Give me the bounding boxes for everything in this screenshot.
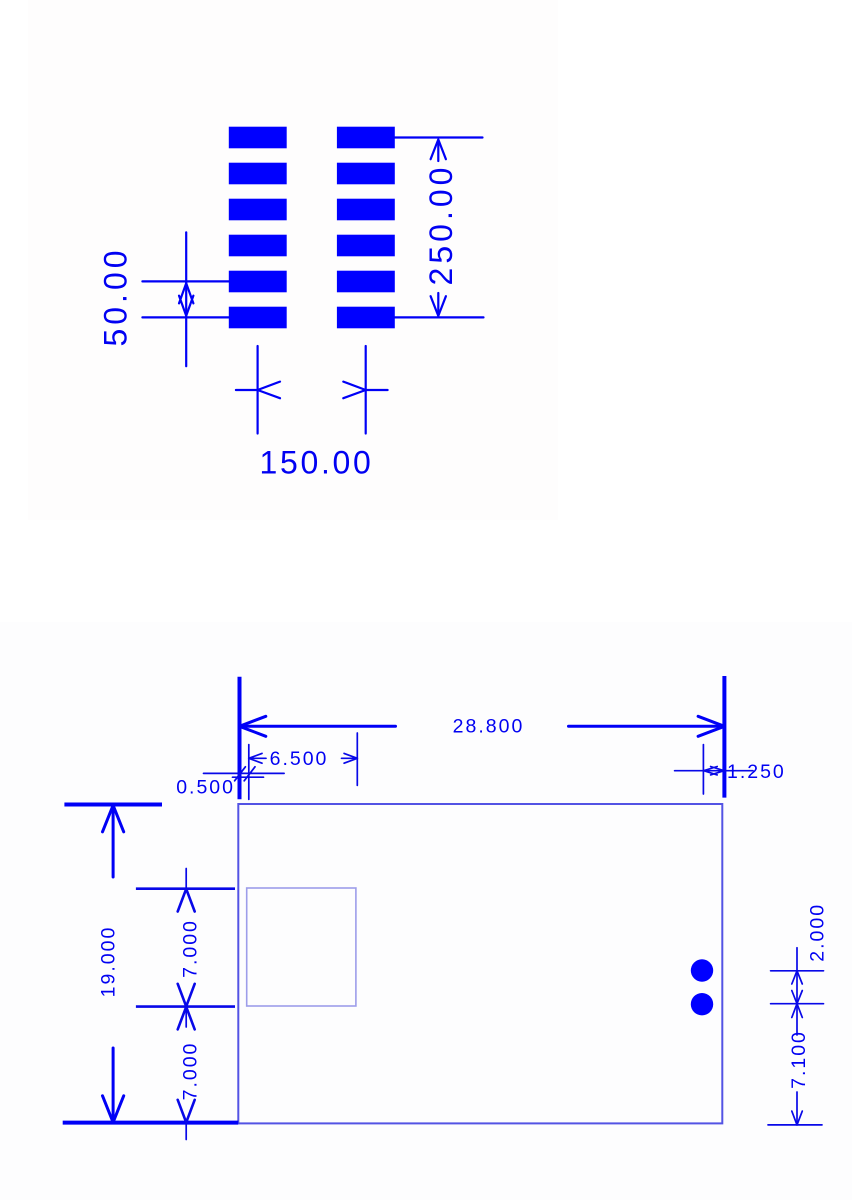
extension line top right (row1 center) xyxy=(395,136,483,138)
dim 0.500 oblique tick left xyxy=(235,767,246,781)
dim 28.800 line right segment + arrow xyxy=(569,725,725,728)
pad R3 xyxy=(337,199,395,221)
thick extension line bottom-left horizontal xyxy=(63,1121,239,1125)
right extension line 1 (circle1 center) xyxy=(771,970,824,972)
dim 7.000 lower arrows + stem below bottom xyxy=(178,1007,195,1030)
dim 250.00 stem bottom + arrow down xyxy=(437,293,439,316)
dim 50.00 extension line row6 xyxy=(142,316,228,318)
svg-text:7.000: 7.000 xyxy=(180,919,202,978)
dim 28.800 line left segment + arrow xyxy=(240,725,396,728)
pad R5 xyxy=(337,271,395,293)
dim 50.00 diamond limit arrows xyxy=(179,283,193,316)
svg-text:0.500: 0.500 xyxy=(176,777,235,799)
dim 1.250 diamond limit arrows xyxy=(704,767,724,775)
pad L4 xyxy=(229,235,287,257)
inner rectangle window xyxy=(247,888,356,1006)
svg-text:1.250: 1.250 xyxy=(727,761,786,783)
centerline symbol right column xyxy=(365,346,367,434)
dim 6.500 right segment + arrow xyxy=(342,757,358,759)
dim 19.000 line bottom segment + arrow down xyxy=(112,1048,115,1122)
dim 0.500 dimension lines xyxy=(204,772,285,774)
dim 7.100 bottom stem + arrow down xyxy=(796,1092,798,1125)
svg-text:6.500: 6.500 xyxy=(270,748,329,770)
pad L2 xyxy=(229,163,287,185)
dim 1.250 left extension line xyxy=(702,745,704,794)
pad R4 xyxy=(337,235,395,257)
thick extension line right vertical xyxy=(722,676,726,798)
dim 7.000 upper: stem above A, arrows, stem below B xyxy=(185,869,187,891)
dim 2.000 vertical line xyxy=(796,948,798,1004)
pad L5 xyxy=(229,271,287,293)
svg-text:2.000: 2.000 xyxy=(807,903,829,962)
svg-text:250.00: 250.00 xyxy=(423,164,459,286)
dim 6.500 left segment + arrow xyxy=(249,757,266,759)
svg-text:150.00: 150.00 xyxy=(259,445,373,481)
right bottom extension line xyxy=(768,1124,822,1126)
dim 7.100 arrow up at line2 + stem xyxy=(792,1004,803,1018)
dim 1.250 dimension line xyxy=(675,770,753,772)
dim 2.000 arrow down at line2 xyxy=(792,991,803,1004)
dim 6.500 right extension line xyxy=(356,733,358,785)
pad R2 xyxy=(337,163,395,185)
svg-text:7.000: 7.000 xyxy=(180,1042,202,1101)
dim 0.500 oblique tick right xyxy=(244,767,255,781)
right extension line 2 (circle2 center) xyxy=(771,1003,824,1005)
pad L3 xyxy=(229,199,287,221)
pad L6 xyxy=(229,307,287,329)
dim 2.000 arrow up at line1 xyxy=(792,971,803,984)
extension line x=248.8 thin xyxy=(248,745,250,800)
dim 19.000 line top segment + arrow up xyxy=(112,806,115,877)
pad R6 xyxy=(337,307,395,329)
dim 50.00 vertical line xyxy=(185,232,187,366)
svg-text:19.000: 19.000 xyxy=(98,926,120,998)
svg-text:50.00: 50.00 xyxy=(98,246,134,346)
dim 50.00 extension line row5 xyxy=(142,280,228,282)
extension line A (inner rect top) xyxy=(136,887,235,890)
extension line bottom right (row6 center) xyxy=(395,316,484,318)
extension line B (inner rect bottom) xyxy=(136,1005,235,1008)
thick extension line top-left horizontal xyxy=(64,803,162,807)
svg-text:28.800: 28.800 xyxy=(453,716,525,738)
svg-text:7.100: 7.100 xyxy=(788,1030,810,1089)
hole circle bottom xyxy=(691,993,713,1015)
centerline symbol left column xyxy=(257,346,259,434)
main rectangle body xyxy=(238,804,722,1123)
pad L1 xyxy=(229,127,287,149)
dim 250.00 stem top + arrow up xyxy=(437,140,439,161)
thick extension line left vertical xyxy=(238,677,242,800)
hole circle top xyxy=(691,959,713,981)
pad R1 xyxy=(337,127,395,149)
